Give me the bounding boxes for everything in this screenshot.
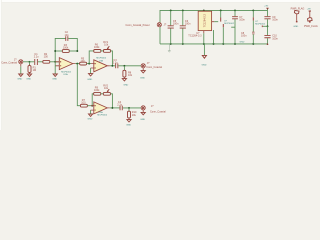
junction dots top rail <box>170 9 172 11</box>
resistor R6 100k <box>94 43 101 52</box>
wire stub at 213.5 <box>213 30 215 44</box>
op-amp U1A MCP6002 <box>55 58 75 77</box>
connector J2 Conn_Coaxial output A <box>141 62 162 69</box>
svg-text:Conn_Coaxial: Conn_Coaxial <box>146 66 162 69</box>
wire R3 right to riser <box>69 50 77 52</box>
svg-text:100: 100 <box>81 60 86 63</box>
wire R3 row left <box>55 50 62 52</box>
wire branch J1 down to stage 3 <box>77 64 80 106</box>
svg-text:TC1264-3.3: TC1264-3.3 <box>188 35 202 38</box>
svg-text:MCP6002: MCP6002 <box>97 115 108 117</box>
wire feedback left riser <box>55 38 65 61</box>
svg-text:100n: 100n <box>185 23 191 26</box>
svg-text:1M: 1M <box>33 69 36 72</box>
ground symbol below regulator <box>202 44 207 67</box>
capacitor C1 2.2u <box>34 53 39 65</box>
window edge top <box>0 0 320 2</box>
capacitor C9 100n <box>264 10 278 26</box>
pin J1 shield down <box>20 64 22 67</box>
resistor R2 100 <box>43 53 50 63</box>
ground stub below rail near C5 <box>168 44 171 52</box>
junction J5 inverting input U2A <box>91 105 93 107</box>
svg-text:GND: GND <box>88 119 93 121</box>
capacitor C5 100n <box>168 10 179 44</box>
op-amp power unit U2C <box>253 10 266 25</box>
wire RV1 to output riser <box>111 51 113 66</box>
connector J4 Conn_Coaxial_Power <box>126 23 167 27</box>
op-amp power unit U1C <box>220 10 235 44</box>
wire C4 to J7 <box>123 107 141 109</box>
ground under U1B +in <box>87 74 92 81</box>
capacitor C2 10p feedback <box>65 31 70 41</box>
junction J4 <box>123 65 125 67</box>
junction node A inverting input U1A <box>54 61 56 63</box>
+9V power symbol <box>264 6 268 11</box>
svg-text:GND: GND <box>52 79 57 81</box>
wire R7 to junction J5 <box>87 105 91 107</box>
wire GND bottom rail <box>160 43 268 45</box>
resistor R1 1M <box>28 64 36 74</box>
wire U1 output to junction J1 <box>75 63 79 65</box>
junction R3 right riser <box>76 50 78 52</box>
wire R9 to RV2 <box>101 93 104 95</box>
wire +9V top rail <box>160 10 268 44</box>
junction mid C9 C10 with stub <box>267 25 269 27</box>
svg-text:100n: 100n <box>173 23 179 26</box>
svg-text:GND: GND <box>17 79 22 81</box>
op-amp U1B MCP6002 <box>91 58 110 72</box>
regulator U4 TC1264-3.3 <box>188 10 218 44</box>
ground under J1 <box>17 74 23 81</box>
ground under J3 <box>140 110 145 121</box>
svg-text:GND: GND <box>126 125 131 127</box>
svg-text:GND: GND <box>26 79 31 81</box>
ground under R8 <box>122 77 128 86</box>
svg-text:PWR_FLAG: PWR_FLAG <box>291 8 305 11</box>
svg-text:+9V: +9V <box>307 9 311 11</box>
resistor R7 100 <box>80 99 87 107</box>
wire C2 right to feedback right riser <box>68 38 77 51</box>
capacitor C6 100n <box>180 10 191 44</box>
svg-text:Conn_Coaxial: Conn_Coaxial <box>150 110 166 113</box>
svg-text:100: 100 <box>44 56 49 59</box>
svg-text:100k: 100k <box>94 89 100 92</box>
wire U1 +in to ground <box>54 62 56 74</box>
ground under U1 +in <box>52 74 57 81</box>
wire J1 shield to ground <box>20 66 22 74</box>
wire C3 to J4 <box>118 65 141 67</box>
svg-text:100n: 100n <box>241 35 247 38</box>
wire RV2 to output riser <box>111 94 113 108</box>
svg-text:MCP6002: MCP6002 <box>224 23 235 25</box>
wire C1 to R2 <box>38 61 43 63</box>
svg-text:GND: GND <box>140 77 145 79</box>
junction dots bottom rail <box>170 43 172 45</box>
wire feedback riser U2A <box>92 94 93 106</box>
trimmer RV1 10k <box>103 41 110 52</box>
svg-text:GND: GND <box>293 26 298 28</box>
end dot bottom rail <box>267 43 269 45</box>
junction J1 output U1A <box>76 63 78 65</box>
ground under R1 <box>26 74 31 81</box>
ground under U2A +in <box>88 114 93 121</box>
svg-text:GND: GND <box>123 84 128 86</box>
connector J1 Conn_Coaxial input <box>1 59 23 65</box>
svg-text:10p: 10p <box>65 34 70 37</box>
svg-text:Conn_Coaxial: Conn_Coaxial <box>1 62 17 65</box>
svg-text:Conn_Coaxial_Power: Conn_Coaxial_Power <box>126 24 150 27</box>
wire U2A output to C4 <box>110 107 120 109</box>
svg-text:MCP6002: MCP6002 <box>255 24 266 26</box>
junction J6 <box>111 107 113 109</box>
capacitor C10 100n <box>264 26 278 44</box>
wire U2A +in to ground <box>90 110 92 114</box>
PWR_FLAG 2 on +9V <box>304 9 318 28</box>
wire J7 down to R10 <box>128 108 130 111</box>
ground under J2 <box>140 68 145 80</box>
capacitor C4 2.2u <box>117 101 122 110</box>
svg-text:2.2u: 2.2u <box>34 56 39 59</box>
wire R2 to node A <box>50 61 60 63</box>
wire node A1 down to R1 <box>29 62 31 66</box>
junction J3 <box>111 65 113 67</box>
resistor R9 100k <box>94 86 101 95</box>
wire node A1 to C1 <box>30 61 35 63</box>
svg-text:GND: GND <box>87 79 92 81</box>
trimmer RV2 10k <box>103 84 110 95</box>
junction R3 left <box>54 50 56 52</box>
capacitor C8 100n <box>241 21 255 44</box>
resistor R5 100 <box>80 57 87 65</box>
junction J2 inverting input U1B <box>88 63 90 65</box>
svg-text:GND: GND <box>202 65 207 67</box>
capacitor C7 100n <box>231 10 245 44</box>
wire R6 to RV1 <box>101 50 104 52</box>
wire U1B +in to ground <box>90 68 92 74</box>
svg-text:PWR_FLAG: PWR_FLAG <box>304 25 318 28</box>
capacitor C3 2.2u <box>113 59 119 68</box>
svg-text:TC1264-3.3: TC1264-3.3 <box>204 13 207 27</box>
svg-text:100n: 100n <box>272 19 278 22</box>
wire U1B output to C3 <box>110 65 115 67</box>
svg-text:100n: 100n <box>239 19 245 22</box>
svg-text:2.2u: 2.2u <box>113 62 118 65</box>
connector J3 Conn_Coaxial output B <box>141 105 166 113</box>
window edge left <box>0 0 1 130</box>
svg-text:100k: 100k <box>94 46 100 49</box>
resistor R10 10k <box>128 111 137 118</box>
junction node A1 <box>29 61 31 63</box>
svg-text:GND: GND <box>140 119 145 121</box>
resistor R8 10k <box>123 70 133 77</box>
ground under R10 <box>126 118 131 127</box>
svg-text:100: 100 <box>81 102 86 105</box>
wire feedback riser U1B <box>89 51 94 64</box>
junction J7 <box>128 107 130 109</box>
wire R5 to junction J2 <box>87 63 91 65</box>
svg-text:+9V: +9V <box>264 6 268 8</box>
wire J1 to node A1 <box>23 61 30 63</box>
svg-text:U1A: U1A <box>63 73 68 76</box>
op-amp U2A MCP6002 <box>91 102 110 117</box>
wire J4 down to R8 <box>123 66 125 71</box>
resistor R3 100k feedback <box>62 44 69 52</box>
svg-text:U1B: U1B <box>99 60 104 62</box>
svg-text:100k: 100k <box>63 47 69 50</box>
svg-text:GND: GND <box>240 41 245 43</box>
PWR_FLAG 1 on GND <box>291 8 305 28</box>
svg-text:2.2u: 2.2u <box>117 104 122 107</box>
svg-text:100n: 100n <box>272 37 278 40</box>
